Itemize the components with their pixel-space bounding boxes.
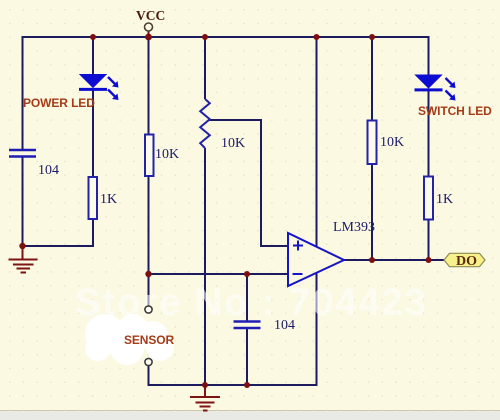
wire mid cap bottom [246, 329, 248, 386]
wire 1K right bottom to output [428, 220, 430, 261]
port DO [444, 253, 485, 269]
VCC power port [136, 8, 165, 37]
node pot top [202, 34, 208, 40]
svg-text:VCC: VCC [136, 8, 165, 23]
resistor R1 10K left [145, 135, 154, 177]
node left rail ground [19, 243, 25, 249]
wire pot wiper to op-amp plus input [209, 120, 288, 246]
op-amp minus sign [293, 273, 303, 275]
capacitor C1 104 left [9, 150, 36, 157]
wire inverting input [149, 273, 289, 275]
node output 10K [369, 257, 375, 263]
node opamp vcc [314, 34, 320, 40]
resistor R2 1K left [89, 177, 98, 219]
node VCC [145, 34, 152, 41]
wire 10K right bottom to output [371, 164, 373, 260]
svg-text:10K: 10K [380, 135, 404, 150]
wire sensor bottom to ground rail [149, 273, 317, 386]
wire power led cathode to R 1K [92, 89, 94, 177]
op-amp U1 LM393 [288, 233, 344, 286]
op-amp plus sign [293, 241, 303, 251]
LED D2 switch led [415, 75, 456, 101]
svg-text:SWITCH LED: SWITCH LED [418, 104, 492, 118]
node power led top [90, 34, 96, 40]
node output 1K [426, 257, 432, 263]
wire output to DO [344, 259, 444, 261]
ground center [190, 385, 220, 411]
wire switch led cathode to 1K right [428, 90, 430, 177]
wire pot bottom to ground rail [204, 148, 206, 385]
resistor R4 1K right [424, 177, 433, 220]
node ground rail cap [244, 382, 250, 388]
wire 10K right [371, 37, 373, 121]
svg-text:10K: 10K [155, 147, 179, 162]
svg-text:SENSOR: SENSOR [124, 333, 175, 347]
svg-text:LM393: LM393 [333, 220, 375, 235]
LED D1 power led [79, 75, 119, 101]
svg-text:POWER LED: POWER LED [23, 96, 95, 110]
wire power led anode [92, 37, 94, 75]
node cap mid top [244, 271, 250, 277]
resistor R3 10K right [368, 121, 377, 165]
wire 10K left bottom to sensor [148, 176, 150, 306]
sensor pin 1 [145, 306, 152, 313]
svg-text:1K: 1K [436, 192, 453, 207]
svg-text:1K: 1K [100, 192, 117, 207]
cloud blob [85, 314, 174, 365]
wire mid cap top [246, 274, 248, 321]
wire 10K left top [148, 37, 150, 135]
potentiometer RP1 10K zigzag [200, 99, 210, 148]
svg-text:10K: 10K [221, 136, 245, 151]
wire pot top [204, 37, 206, 99]
node inverting input [145, 271, 151, 277]
sensor pin 2 [145, 358, 152, 365]
wire left cap bottom to left rail [23, 157, 94, 247]
wire top rail [23, 37, 429, 150]
capacitor C2 104 middle [234, 322, 261, 329]
ground left [9, 246, 38, 273]
svg-text:104: 104 [38, 163, 59, 178]
node ground rail pot [202, 382, 208, 388]
node 10K right top [369, 34, 375, 40]
svg-text:DO: DO [456, 254, 477, 269]
wire op-amp vcc pin [316, 37, 318, 247]
